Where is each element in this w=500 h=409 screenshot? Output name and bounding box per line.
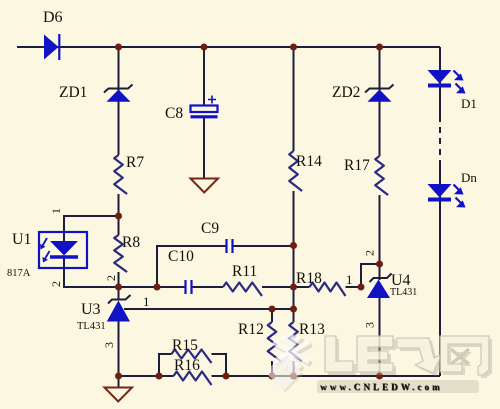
- U1 pin 1: [49, 208, 63, 214]
- svg-text:R12: R12: [238, 321, 264, 338]
- wire bottom rail: [119, 375, 441, 377]
- capacitor C10: [168, 248, 194, 294]
- U1 part number 817A: [7, 268, 31, 279]
- svg-text:TL431: TL431: [77, 321, 106, 332]
- wire R12 column: [271, 309, 273, 376]
- U3 pin 3 label: [102, 342, 116, 348]
- capacitor C8: [165, 96, 218, 123]
- svg-text:2: 2: [362, 250, 376, 256]
- U1 pin 2: [49, 281, 63, 287]
- wire U1 pin1 to node: [64, 216, 119, 241]
- U3 pin 2 label: [104, 275, 118, 281]
- junction node 16: [223, 373, 230, 380]
- junction node 1: [115, 44, 122, 51]
- svg-text:C9: C9: [201, 220, 219, 237]
- svg-text:3: 3: [362, 322, 376, 328]
- junction node 7: [154, 284, 161, 291]
- svg-text:1: 1: [346, 272, 353, 287]
- resistor R14: [289, 151, 322, 191]
- junction node 10: [269, 306, 276, 313]
- shunt regulator U3 TL431: [77, 295, 131, 332]
- wire ZD2/R17/U4 column x=379.5: [379, 47, 381, 376]
- junction node 11: [290, 306, 297, 313]
- resistor R7: [114, 154, 144, 194]
- wire U3 pin1: [124, 308, 294, 310]
- resistor R11: [223, 263, 262, 296]
- junction node 3: [290, 44, 297, 51]
- resistor R12: [238, 321, 281, 361]
- svg-text:ZD2: ZD2: [332, 84, 360, 101]
- wire R18 to U4 bracket: [346, 264, 380, 287]
- resistor R13: [289, 321, 325, 361]
- U4 pin 1 label: [346, 272, 353, 287]
- svg-text:R13: R13: [299, 321, 325, 338]
- zener ZD2: [332, 84, 394, 102]
- svg-text:1: 1: [49, 208, 63, 214]
- svg-text:R8: R8: [122, 234, 140, 251]
- svg-text:C10: C10: [168, 248, 194, 265]
- svg-text:1: 1: [143, 294, 150, 309]
- svg-text:Dn: Dn: [461, 170, 477, 185]
- svg-text:www.CNLEDW.com: www.CNLEDW.com: [320, 382, 443, 392]
- junction node 2: [201, 44, 208, 51]
- svg-text:3: 3: [102, 342, 116, 348]
- U4 pin 3 label: [362, 322, 376, 328]
- junction node 12: [358, 284, 365, 291]
- wire R15 parallel branch: [159, 354, 226, 376]
- junction node 15: [156, 373, 163, 380]
- svg-text:U1: U1: [12, 231, 32, 248]
- capacitor C9: [201, 220, 233, 253]
- wire C10/R11 net y=287: [119, 286, 310, 288]
- wire LED string column: [439, 47, 441, 376]
- resistor R17: [344, 156, 388, 195]
- svg-text:R18: R18: [296, 270, 322, 287]
- junction node 8: [290, 242, 297, 249]
- junction node 9: [290, 284, 297, 291]
- svg-text:R16: R16: [174, 357, 200, 374]
- LED Dn: [428, 170, 478, 208]
- junction node 13: [376, 261, 383, 268]
- wire C9 net: [157, 246, 294, 287]
- wire left column x=118: [118, 47, 120, 387]
- junction node 5: [115, 213, 122, 220]
- wire C8 column: [203, 47, 205, 178]
- junction node 17: [269, 373, 276, 380]
- junction node 4: [376, 44, 383, 51]
- svg-text:R17: R17: [344, 157, 370, 174]
- svg-text:D6: D6: [43, 9, 63, 26]
- svg-text:U3: U3: [81, 301, 101, 318]
- resistor R8: [114, 234, 140, 272]
- LED D1: [428, 70, 477, 111]
- diode D6: [43, 9, 63, 60]
- resistor R15: [172, 337, 212, 363]
- svg-text:R15: R15: [172, 337, 198, 354]
- svg-text:817A: 817A: [7, 268, 31, 279]
- U4 pin 2 label: [362, 250, 376, 256]
- wire top rail: [17, 46, 440, 48]
- svg-text:R14: R14: [296, 153, 322, 170]
- svg-text:2: 2: [104, 275, 118, 281]
- junction node 18: [290, 373, 297, 380]
- svg-text:ZD1: ZD1: [59, 84, 87, 101]
- svg-text:TL431: TL431: [390, 287, 417, 298]
- shunt regulator U4 TL431: [367, 272, 417, 298]
- junction node 6: [115, 284, 122, 291]
- svg-text:2: 2: [49, 281, 63, 287]
- svg-text:R11: R11: [232, 263, 257, 280]
- svg-text:R7: R7: [126, 154, 144, 171]
- watermark (decorative): [265, 332, 492, 393]
- wire R14/R13 column x=293.5: [293, 47, 295, 376]
- resistor R18: [296, 270, 346, 296]
- junction node 19: [376, 373, 383, 380]
- ground below U3: [105, 388, 133, 402]
- svg-text:C8: C8: [165, 105, 183, 122]
- ground below C8: [191, 179, 219, 193]
- zener ZD1: [59, 84, 133, 102]
- resistor R16: [174, 357, 212, 385]
- wire U1 pin2 to node: [64, 257, 119, 287]
- optocoupler U1: [12, 231, 87, 268]
- U3 pin 1 label: [143, 294, 150, 309]
- junction node 14: [115, 373, 122, 380]
- svg-text:D1: D1: [461, 96, 477, 111]
